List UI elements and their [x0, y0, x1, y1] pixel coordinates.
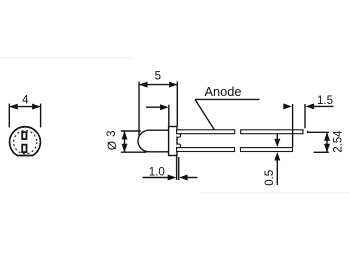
dimension 1.0: flange-left extension line	[176, 156, 178, 180]
faint scan artifact line top	[0, 57, 133, 59]
dimension 1.5: arrow shaft	[313, 105, 334, 107]
dimension 2.54: bottom extension line	[314, 151, 329, 153]
dimension 5: left extension line	[138, 82, 140, 136]
anode top lead, left segment	[177, 130, 235, 134]
svg-text:1.0: 1.0	[149, 167, 165, 179]
bottom lead crimp at flange	[176, 144, 181, 151]
svg-text:5: 5	[155, 71, 161, 83]
LED side view: flange	[169, 127, 177, 156]
flange-edge marker arrowhead	[160, 104, 169, 110]
dimension 2.54: vertical shaft	[326, 132, 328, 152]
dimension 4: right arrowhead	[32, 104, 41, 110]
dimension 1.0: left shaft under text	[143, 177, 169, 179]
svg-text:3: 3	[106, 130, 118, 136]
dimension Ø3: bottom extension line	[121, 151, 147, 153]
faint scan artifact line bottom	[200, 192, 350, 194]
dimension 1.0: right shaft	[187, 177, 198, 179]
dimension 0.5: lower arrow shaft	[276, 159, 278, 185]
dimension 1.0: left-pointing arrowhead	[179, 175, 188, 181]
dimension 5: dimension line	[139, 84, 177, 86]
flange-edge marker extension line	[168, 105, 170, 127]
svg-text:0.5: 0.5	[264, 170, 276, 186]
dimension 2.54: up arrowhead	[324, 132, 330, 141]
dimension 1.5: cathode-end extension line	[292, 104, 294, 147]
dimension 5: right arrowhead	[169, 82, 177, 88]
dimension 1.5: left-pointing arrowhead	[306, 103, 315, 109]
LED bottom view: anode pin pad	[22, 145, 26, 152]
dimension 1.0: flange-right extension line	[178, 157, 180, 180]
LED bottom view: cathode pin pad	[22, 132, 26, 139]
dimension 4: left arrowhead	[9, 104, 17, 110]
dimension 5: left arrowhead	[139, 82, 148, 88]
svg-text:Anode: Anode	[205, 84, 242, 99]
svg-text:Ø: Ø	[105, 141, 119, 150]
dimension 1.0: right-pointing arrowhead	[168, 175, 177, 181]
cathode bottom lead, left segment	[177, 148, 235, 152]
svg-text:1.5: 1.5	[317, 95, 333, 107]
LED bottom view: outer body circle with flat	[10, 127, 41, 156]
dimension Ø3: down arrowhead	[122, 144, 128, 153]
dimension 2.54: top extension line	[308, 131, 329, 133]
dimension 1.5: anode-end extension line	[304, 104, 306, 128]
dimension 4: right extension line	[40, 104, 42, 128]
dimension 0.5: lower up arrowhead	[274, 152, 280, 161]
anode top lead, right segment	[241, 130, 303, 134]
flange-edge marker arrow shaft	[146, 106, 161, 108]
dimension 1.5: right-pointing arrowhead	[283, 103, 292, 109]
svg-text:2.54: 2.54	[333, 130, 345, 153]
LED bottom view: dashed inner circle	[14, 131, 37, 154]
Anode leader line diagonal	[195, 99, 214, 129]
dimension 0.5: upper down arrowhead	[274, 139, 280, 148]
dimension Ø3: top extension line	[121, 130, 141, 132]
Anode leader line horizontal	[195, 98, 260, 100]
dimension Ø3: up arrowhead	[122, 131, 128, 140]
dimension 4: dimension line	[9, 106, 40, 108]
top lead crimp at flange	[176, 130, 181, 137]
svg-text:4: 4	[22, 95, 29, 107]
dimension 0.5: upper arrow shaft	[276, 134, 278, 141]
cathode bottom lead, right segment	[241, 148, 293, 152]
dimension 2.54: down arrowhead	[324, 144, 330, 153]
dimension 5: right extension line	[176, 82, 178, 127]
LED side view: epoxy body with dome	[138, 130, 169, 152]
dimension Ø3: vertical double arrow shaft	[124, 131, 126, 152]
dimension 4: left extension line	[8, 104, 10, 128]
